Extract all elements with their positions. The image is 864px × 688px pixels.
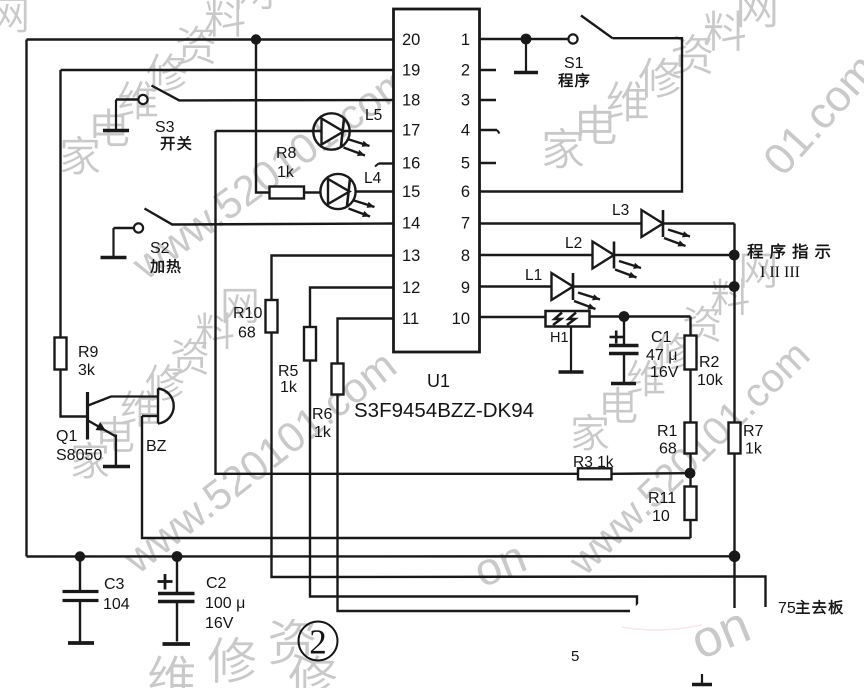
wire R9 to Q1 base <box>61 370 87 417</box>
wire pin20 top rail <box>27 38 394 40</box>
LED L1 <box>552 273 601 310</box>
svg-text:4: 4 <box>461 122 470 140</box>
resistor R10 <box>266 300 278 333</box>
svg-text:15: 15 <box>402 183 420 201</box>
svg-text:2: 2 <box>461 62 470 80</box>
buzzer BZ <box>142 389 174 424</box>
svg-text:16V: 16V <box>205 615 234 632</box>
resistor R8 <box>270 187 305 199</box>
transistor Q1 <box>88 392 159 465</box>
wire S2 to pin14 <box>172 224 394 225</box>
svg-text:1: 1 <box>461 31 470 49</box>
svg-text:R5: R5 <box>278 363 299 380</box>
ground (H1) <box>570 327 572 373</box>
node junction on pin20 rail <box>251 34 261 44</box>
svg-text:19: 19 <box>402 62 420 80</box>
resistor R11 <box>685 487 697 521</box>
wire pin19 rail <box>61 69 394 71</box>
node junction L2/right bus <box>729 250 740 261</box>
wire BZ down to R11 bottom rail <box>142 416 691 538</box>
heater H1 <box>546 311 590 327</box>
wire pin3 stub <box>480 99 497 101</box>
wire pin12 to R5 <box>310 288 394 328</box>
wire L1 to right bus <box>573 285 735 287</box>
svg-text:1k: 1k <box>745 441 763 458</box>
wire pin17 from left vertical to LED L5 <box>216 130 394 132</box>
wire H1 to C1 node <box>590 315 691 317</box>
capacitor C3 <box>63 557 99 642</box>
svg-text:17: 17 <box>402 122 420 140</box>
wire right bus vertical down to R7 <box>733 224 735 423</box>
svg-text:100 μ: 100 μ <box>205 595 245 612</box>
svg-text:R8: R8 <box>276 145 297 162</box>
svg-text:R2: R2 <box>699 354 720 371</box>
svg-text:L5: L5 <box>365 107 382 124</box>
svg-text:U1: U1 <box>427 371 450 391</box>
ground (C1) <box>611 382 636 386</box>
wire R8 to L4 <box>304 191 321 193</box>
node junction L1/right bus <box>729 281 740 292</box>
capacitor C1 <box>609 317 639 383</box>
wire pin11 to R6 <box>338 319 394 364</box>
label 程序 <box>558 73 572 87</box>
wire junction down to R8 <box>256 40 270 193</box>
svg-text:1k: 1k <box>280 379 298 396</box>
svg-text:9: 9 <box>461 279 470 297</box>
wire R11 to bottom rail <box>689 520 691 538</box>
svg-text:R3 1k: R3 1k <box>573 454 614 471</box>
svg-text:75: 75 <box>778 600 796 617</box>
svg-text:R6: R6 <box>312 406 333 423</box>
ground (C2) <box>163 642 191 646</box>
wire pin1 to S1 <box>480 38 569 40</box>
wire pin13 to R10 <box>272 256 394 301</box>
switch S2 <box>114 209 173 233</box>
resistor R5 <box>304 327 316 361</box>
label figure number 2 <box>299 622 338 662</box>
svg-text:R9: R9 <box>78 344 99 361</box>
wire left border vertical <box>25 40 27 557</box>
LED L2 <box>593 242 642 279</box>
svg-text:13: 13 <box>402 247 420 265</box>
svg-text:2: 2 <box>309 623 327 662</box>
wire pin17-net left vertical down to R3 <box>216 131 579 474</box>
resistor R9 <box>55 338 67 370</box>
resistor R3 <box>578 468 612 479</box>
svg-text:104: 104 <box>103 596 130 613</box>
svg-text:47 μ: 47 μ <box>646 347 677 364</box>
svg-text:R10: R10 <box>233 305 262 322</box>
svg-text:L1: L1 <box>525 267 542 284</box>
svg-text:20: 20 <box>402 31 420 49</box>
svg-text:10k: 10k <box>697 372 724 389</box>
wire pin19 down to R9 <box>59 70 61 338</box>
wire pin16 stub <box>379 162 394 164</box>
wire L4 to pin15 <box>356 190 394 192</box>
wire R7 down through rail junction <box>733 454 735 609</box>
wire S3 to pin18 <box>179 99 394 102</box>
LED L3 <box>642 210 691 247</box>
svg-text:C1: C1 <box>651 329 672 346</box>
svg-text:6: 6 <box>461 183 470 201</box>
svg-text:S8050: S8050 <box>56 447 102 464</box>
wire pin4 stub <box>480 129 498 131</box>
wire R1 to junction <box>689 454 691 487</box>
svg-text:S2: S2 <box>150 240 170 257</box>
wire L3 to right bus <box>663 222 735 224</box>
wire pin8 to L2 <box>480 254 593 256</box>
wire pin10 to H1 <box>480 316 546 318</box>
svg-text:8: 8 <box>461 247 470 265</box>
svg-text:L2: L2 <box>565 235 582 252</box>
svg-text:16V: 16V <box>650 364 679 381</box>
wire R3 to junction <box>612 472 691 475</box>
ground (bottom right) <box>701 674 703 685</box>
IC U1 microcontroller S3F9454BZZ-DK94, 20-pin DIP <box>394 9 480 352</box>
ground (Q1 emitter) <box>103 465 130 469</box>
svg-text:S1: S1 <box>564 55 584 72</box>
LED L4 <box>320 174 374 217</box>
node junction C2 <box>172 551 183 562</box>
ground (C3) <box>68 641 94 645</box>
wire L2 to right bus <box>614 254 735 256</box>
svg-text:R1: R1 <box>657 423 678 440</box>
label 开关 <box>161 137 175 150</box>
resistor R7 <box>729 423 741 454</box>
svg-text:68: 68 <box>238 325 256 342</box>
wire pin9 to L1 <box>480 285 552 287</box>
capacitor C2 <box>158 557 195 642</box>
label 加热 <box>150 259 163 273</box>
white scan blob <box>634 595 714 627</box>
svg-text:5: 5 <box>461 155 470 173</box>
svg-text:L4: L4 <box>364 170 382 187</box>
svg-text:14: 14 <box>402 215 420 233</box>
wire bottom rail <box>27 555 735 558</box>
wire R2 to R1 <box>689 370 691 423</box>
ground (S3) <box>115 100 117 131</box>
svg-text:C2: C2 <box>206 575 227 592</box>
svg-text:R11: R11 <box>648 490 676 507</box>
svg-text:Q1: Q1 <box>56 428 77 445</box>
svg-text:R7: R7 <box>743 423 764 440</box>
svg-text:I II III: I II III <box>760 264 800 281</box>
node junction C3 <box>75 551 85 561</box>
LED L5 <box>313 113 369 156</box>
resistor R2 <box>685 336 697 370</box>
svg-text:18: 18 <box>402 92 420 110</box>
wire R5 down and right toward main board <box>310 361 637 613</box>
svg-text:10: 10 <box>652 508 670 525</box>
node junction R1/R3/R11 <box>685 468 696 479</box>
svg-text:L3: L3 <box>612 202 629 219</box>
node junction pin1/ground <box>521 34 532 45</box>
node junction R7/bottom rail <box>729 551 741 563</box>
svg-text:1k: 1k <box>277 164 295 181</box>
svg-text:BZ: BZ <box>146 438 167 455</box>
resistor R1 <box>685 423 697 454</box>
wire R10 down and right to main-board stub <box>272 333 766 608</box>
switch S3 <box>116 86 180 105</box>
svg-text:H1: H1 <box>550 330 569 346</box>
node junction H1/C1 <box>619 311 630 322</box>
switch S1 <box>568 16 612 44</box>
svg-text:1k: 1k <box>314 424 332 441</box>
svg-text:10: 10 <box>452 310 470 328</box>
svg-text:S3F9454BZZ-DK94: S3F9454BZZ-DK94 <box>354 399 534 422</box>
svg-text:12: 12 <box>402 279 420 297</box>
wire S1 around to pin6 <box>480 38 683 191</box>
svg-text:7: 7 <box>461 215 470 233</box>
ground (pin1) <box>525 39 527 73</box>
wire pin2 stub <box>480 69 497 71</box>
wire R6 down and right toward main board <box>338 395 631 612</box>
svg-text:68: 68 <box>659 441 677 458</box>
svg-text:C3: C3 <box>104 576 125 593</box>
label 程序指示 <box>747 244 762 259</box>
wire C1 node down to R2 <box>689 317 691 336</box>
svg-text:11: 11 <box>402 310 419 328</box>
wire pin5 stub <box>480 162 497 164</box>
svg-text:5: 5 <box>571 648 579 665</box>
svg-text:16: 16 <box>402 155 420 173</box>
svg-text:S3: S3 <box>155 119 175 136</box>
resistor R6 <box>332 364 344 395</box>
svg-text:3k: 3k <box>78 362 96 379</box>
ground (S2) <box>112 228 114 258</box>
wire pin7 to L3 <box>480 222 642 224</box>
svg-text:3: 3 <box>461 92 470 110</box>
